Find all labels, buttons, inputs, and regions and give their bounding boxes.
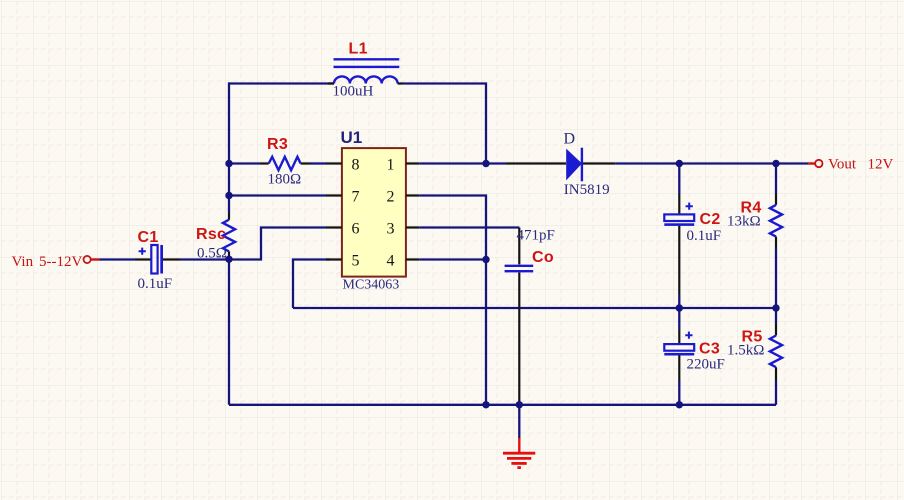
junction: C2-C3 / feedback rail (676, 304, 683, 311)
wire: diode cathode to Vout terminal (615, 162, 808, 164)
resistor R3 (260, 157, 310, 170)
junction: right bus / pin4 row (482, 256, 489, 263)
svg-text:IN5819: IN5819 (564, 182, 610, 198)
node: Vin port (84, 256, 100, 263)
svg-text:1.5kΩ: 1.5kΩ (727, 343, 764, 359)
svg-text:C2: C2 (700, 211, 721, 228)
svg-text:100uH: 100uH (333, 84, 374, 100)
junction: C3 lead / ground rail (676, 401, 683, 408)
wire: R4 bottom to feedback rail (775, 248, 777, 308)
junction: C2 branch / Vout row (676, 160, 683, 167)
svg-text:L1: L1 (349, 41, 368, 58)
svg-text:0.1uF: 0.1uF (687, 228, 722, 244)
svg-text:Vout: Vout (828, 156, 857, 172)
svg-text:Rsc: Rsc (196, 226, 226, 243)
junction: R4-R5 / feedback rail (772, 304, 779, 311)
wire: left bus vertical lower segment below Rsc (228, 258, 230, 405)
wire: feedback rail down to R5 (775, 308, 777, 323)
wire: left bus vertical upper segment (228, 82, 230, 213)
svg-text:U1: U1 (341, 128, 363, 147)
junction: right bus / ground rail (482, 401, 489, 408)
svg-text:6: 6 (352, 220, 360, 237)
svg-text:R3: R3 (267, 136, 288, 153)
svg-text:Vin: Vin (12, 254, 34, 270)
wire: pin 4 to right bus (419, 258, 486, 260)
svg-text:2: 2 (387, 188, 395, 205)
wire: ground stem (518, 405, 520, 438)
wire: pin 3 to Co capacitor (419, 226, 519, 228)
wire: pin 5 jog down to feedback rail (293, 260, 330, 309)
wire: Vout node down to R4 (775, 164, 777, 195)
wire: feedback rail to R4/R5 node (293, 307, 776, 309)
wire: C3 bottom to ground rail (678, 380, 680, 405)
junction: right bus / pin1 row (482, 160, 489, 167)
inductor L1 (328, 59, 403, 83)
capacitor Co (timing, 471pF) (505, 228, 534, 405)
capacitor C3 (polarized, 220uF) (664, 330, 694, 380)
svg-text:8: 8 (352, 156, 360, 173)
resistor Rsc (on left bus) (223, 213, 235, 258)
junction: R4 / Vout row (772, 160, 779, 167)
wire: pin 1 to diode anode (419, 162, 506, 164)
svg-text:0.5Ω: 0.5Ω (197, 246, 227, 262)
svg-text:MC34063: MC34063 (343, 278, 400, 293)
node: Vout port (808, 160, 823, 167)
wire: Vin node jog up to pin 6 (229, 228, 326, 260)
wire: L1 left lead to left bus top corner (229, 82, 334, 84)
junction: bus / pin7 row (225, 192, 232, 199)
wire: R5 bottom to ground rail (775, 380, 777, 405)
wire: Vin terminal to C1 (100, 258, 136, 260)
resistor R4 (13k) (770, 194, 782, 248)
svg-text:0.1uF: 0.1uF (138, 276, 173, 292)
svg-text:12V: 12V (868, 156, 894, 172)
junction: Co lead / ground rail (516, 401, 523, 408)
junction: bus / Vin row (225, 256, 232, 263)
diode D IN5819 (506, 148, 615, 182)
wire: bottom ground rail (229, 404, 776, 406)
wire: pin 7 row from bus to chip (229, 194, 326, 196)
wire: pin 2 to right bus vertical down to ground rail (419, 196, 486, 405)
junction: bus / R3 row (225, 160, 232, 167)
resistor R5 (1.5k) (770, 323, 782, 380)
wire: C1 to left bus (180, 258, 229, 260)
wire: R3 to chip pin 8 (310, 162, 326, 164)
wire: Vout node down to C2 (678, 164, 680, 195)
op-amp U1 chip body MC34063 (326, 148, 419, 277)
svg-text:5: 5 (352, 252, 360, 269)
svg-text:D: D (564, 130, 576, 147)
svg-text:4: 4 (387, 252, 395, 269)
svg-text:Co: Co (532, 249, 554, 266)
svg-text:1: 1 (387, 156, 395, 173)
svg-text:3: 3 (387, 220, 395, 237)
svg-text:180Ω: 180Ω (268, 172, 302, 188)
capacitor C2 (polarized, 0.1uF) (664, 194, 694, 295)
ground (503, 438, 535, 468)
svg-text:5--12V: 5--12V (39, 254, 82, 270)
svg-text:13kΩ: 13kΩ (727, 214, 761, 230)
svg-text:C3: C3 (699, 340, 720, 357)
wire: feedback rail down to C3 (678, 308, 680, 330)
svg-text:220uF: 220uF (687, 357, 725, 373)
wire: C2 bottom to feedback rail (678, 295, 680, 308)
svg-text:C1: C1 (138, 229, 159, 246)
svg-text:7: 7 (352, 188, 360, 205)
wire: L1 right lead down to pin1 node (403, 84, 486, 164)
svg-text:471pF: 471pF (517, 227, 555, 243)
wire: R3 row from bus to resistor (229, 162, 260, 164)
capacitor C1 (polarized, input) (135, 245, 180, 274)
